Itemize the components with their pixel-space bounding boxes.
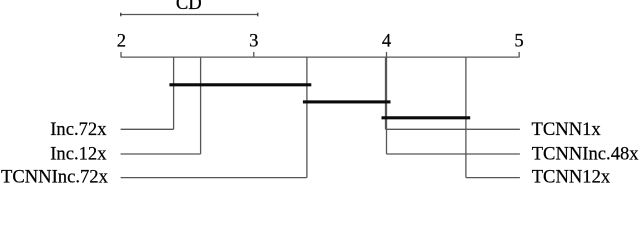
rank line TCNN1x bbox=[385, 57, 387, 129]
svg-text:Inc.12x: Inc.12x bbox=[50, 144, 107, 165]
svg-text:2: 2 bbox=[117, 31, 126, 52]
svg-text:TCNNInc.72x: TCNNInc.72x bbox=[1, 167, 109, 185]
CD bracket bbox=[120, 13, 258, 17]
connector TCNN1x bbox=[386, 128, 520, 130]
tick 5 bbox=[518, 52, 520, 57]
svg-text:4: 4 bbox=[382, 31, 391, 52]
clique bar 3 bbox=[382, 116, 471, 119]
axis bbox=[121, 56, 520, 58]
svg-text:TCNNInc.48x: TCNNInc.48x bbox=[532, 144, 640, 165]
tick 2 bbox=[120, 52, 122, 57]
svg-text:TCNN12x: TCNN12x bbox=[532, 167, 611, 185]
connector TCNNInc.48x bbox=[387, 153, 520, 155]
connector TCNNInc.72x bbox=[121, 177, 307, 179]
rank line TCNNInc.48x bbox=[386, 57, 388, 154]
rank line TCNN12x bbox=[465, 57, 467, 178]
connector Inc.12x bbox=[121, 153, 201, 155]
rank line Inc.72x bbox=[173, 57, 175, 129]
svg-text:Inc.72x: Inc.72x bbox=[50, 119, 107, 140]
connector TCNN12x bbox=[466, 177, 520, 179]
svg-text:CD: CD bbox=[176, 0, 202, 14]
svg-text:TCNN1x: TCNN1x bbox=[532, 119, 602, 140]
tick 3 bbox=[253, 52, 255, 57]
clique bar 1 bbox=[169, 83, 311, 86]
connector Inc.72x bbox=[121, 128, 174, 130]
svg-text:5: 5 bbox=[514, 31, 523, 52]
rank line TCNNInc.72x bbox=[306, 57, 308, 178]
tick 4 bbox=[386, 52, 388, 57]
clique bar 2 bbox=[303, 100, 391, 103]
svg-text:3: 3 bbox=[249, 31, 258, 52]
rank line Inc.12x bbox=[200, 57, 202, 154]
